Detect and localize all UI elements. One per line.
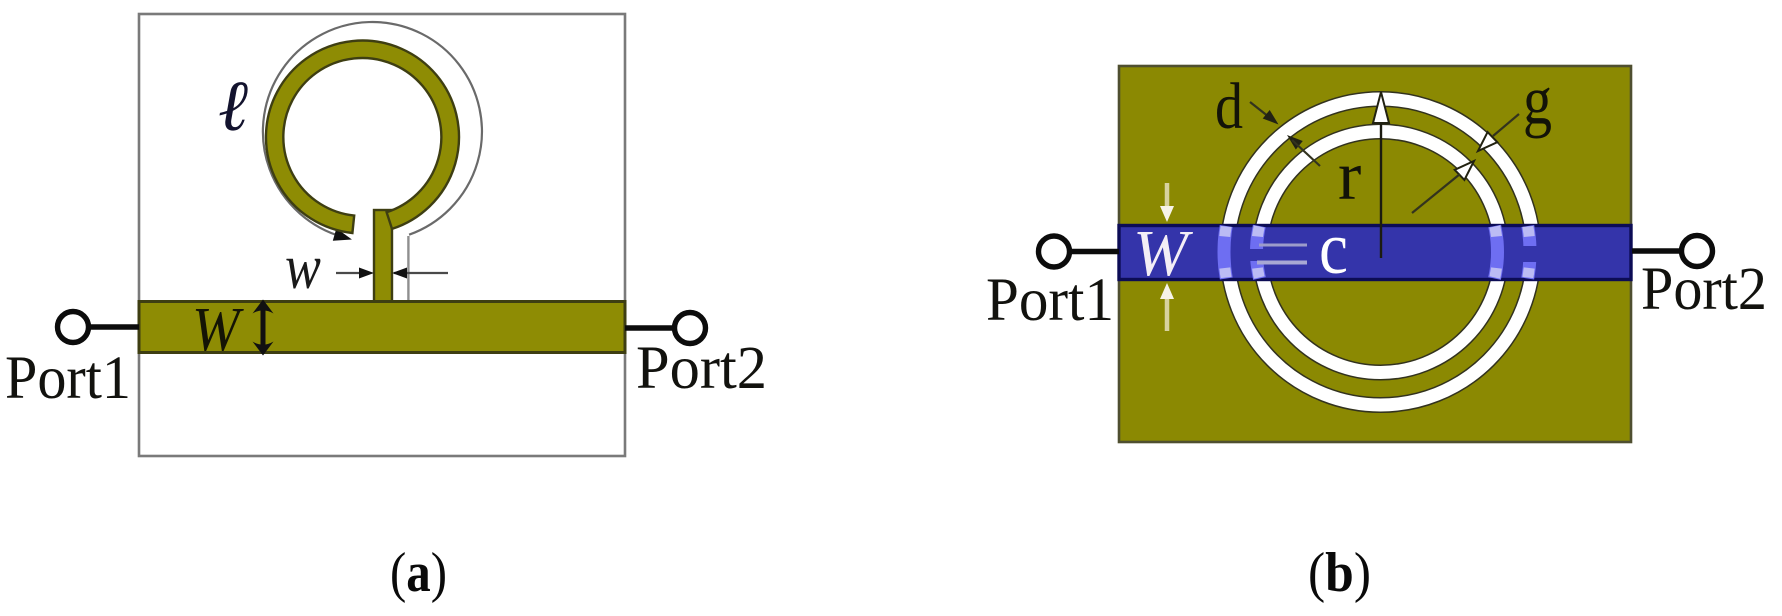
wire: loop-length annotation arc around ring (a) [263,22,482,241]
svg-text:Port2: Port2 [636,335,767,402]
label d with dimension arrows (slot width, panel b) [1215,70,1320,166]
svg-text:g: g [1523,63,1552,140]
dimension arrow for W (double-headed vertical, panel a) [253,300,274,356]
radius annotation r: vertical line with open arrowhead (panel b) [1373,92,1389,258]
wire: clearance outline right of stub (a) [407,236,409,300]
inner slot ring (panel b) [1260,132,1501,373]
svg-text:c: c [1319,208,1348,290]
svg-text:Port1: Port1 [986,267,1114,334]
svg-text:Port1: Port1 [5,345,131,412]
svg-text:(a): (a) [390,542,447,604]
hidden ring arc under strip: outer-left [1224,226,1226,279]
svg-text:d: d [1215,70,1243,143]
svg-text:ℓ: ℓ [218,66,248,146]
label c with gap leader lines (panel b) [1257,208,1348,290]
label W with white arrows (strip width, panel b) [1133,183,1193,331]
svg-text:W: W [192,295,245,364]
svg-text:W: W [1133,217,1193,290]
label g with dimension arrows (ring spacing, panel b) [1412,63,1552,214]
svg-text:(b): (b) [1308,542,1371,604]
port 2 terminal (panel a) [625,313,706,344]
label w with dimension arrows (stub width, panel a) [285,231,448,302]
outer slot ring (panel b) [1228,99,1534,405]
port 1 terminal (panel a) [58,312,140,343]
ring resonator R1 (open-loop, panel a) [266,41,459,233]
port 2 terminal (panel b) [1632,236,1713,267]
hidden ring arc under strip: inner-right [1495,226,1498,279]
label W (line width, panel a) [192,295,245,364]
svg-text:r: r [1338,138,1361,215]
hidden ring arc under strip: inner-left (dashed) [1244,226,1265,279]
panel (b) substrate (ground plane) [1119,66,1631,442]
panel (a) substrate box [139,14,625,456]
microstrip feed line (panel a) [139,302,625,353]
svg-text:w: w [285,231,321,302]
port 1 terminal (panel b) [1039,236,1120,267]
microstrip line (blue, panel b) [1119,226,1631,280]
stub: vertical feed of ring (a) [374,210,392,302]
svg-text:Port2: Port2 [1641,256,1767,323]
hidden ring arc under strip: outer-right (dashed) [1515,226,1538,279]
